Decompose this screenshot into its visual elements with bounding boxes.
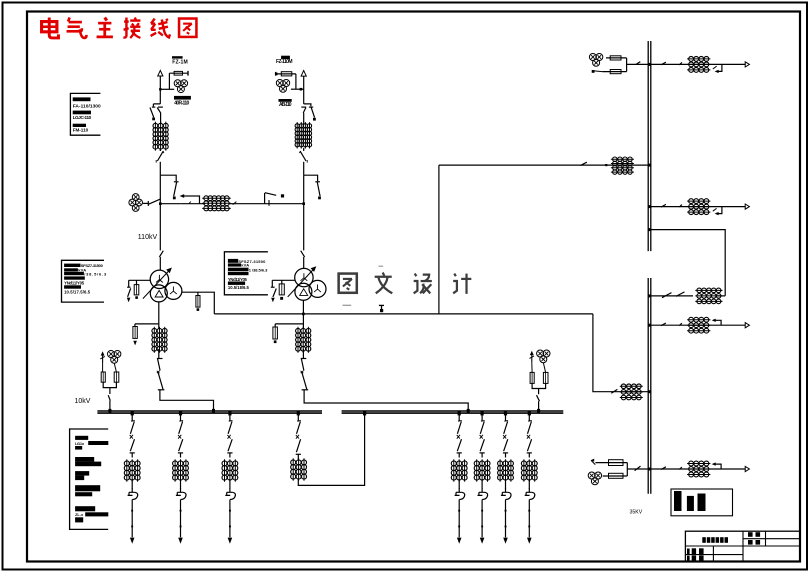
disconnector QS9 — [301, 251, 305, 257]
svg-text:YNd11/Y05: YNd11/Y05 — [228, 277, 248, 282]
svg-text:1 /38.5/6.3: 1 /38.5/6.3 — [249, 267, 268, 272]
legend bar 1 — [674, 491, 682, 511]
disconnector QS8a — [480, 421, 484, 434]
wire — [505, 479, 507, 489]
fuse F7 — [134, 280, 139, 295]
fuse cutout — [501, 488, 511, 499]
node line arrow — [745, 323, 749, 328]
wire 10kV feeder 4 — [458, 413, 460, 421]
disconnector QS11 — [611, 389, 617, 393]
wire 35kV feeder line c — [651, 324, 746, 326]
label bar — [73, 111, 91, 115]
net mark — [379, 305, 384, 312]
node line arrow — [745, 204, 749, 209]
wire — [103, 382, 116, 387]
disconnector QS6b — [227, 439, 232, 453]
wire — [303, 175, 305, 204]
node tick — [505, 526, 507, 528]
callout box feeder legend — [70, 429, 109, 529]
node tick — [180, 510, 182, 512]
title block cell blob — [748, 540, 760, 545]
CT TA3 — [295, 122, 312, 148]
label bar — [75, 462, 101, 467]
node arrester arrow — [100, 351, 105, 363]
breaker QF10 — [527, 435, 530, 439]
busbar W2 (10kV section II) — [342, 411, 564, 413]
wire 10kV feeder 3 — [229, 413, 231, 421]
svg-text:LGJC-110: LGJC-110 — [73, 115, 92, 120]
junction — [302, 313, 305, 316]
fuse cutout — [525, 488, 535, 499]
fuse cutout — [478, 488, 488, 499]
svg-text:FA-110/1300: FA-110/1300 — [73, 103, 101, 109]
disconnector QS4b — [130, 439, 135, 453]
node tick — [505, 510, 507, 512]
title block dividers — [685, 531, 799, 561]
breaker QF9 — [503, 435, 506, 439]
disconnector QS1b — [157, 107, 163, 113]
busbar W3 section II — [648, 278, 651, 494]
node QS1a open dot — [152, 118, 155, 121]
breaker hook — [713, 64, 722, 73]
breaker QF5 — [178, 435, 181, 439]
disconnector QS8b — [480, 439, 485, 453]
wire — [158, 349, 160, 358]
label bar — [75, 506, 95, 511]
junction tick — [179, 411, 182, 415]
disconnector QS16a — [661, 323, 666, 326]
node dot — [592, 70, 595, 73]
CT TA24 — [124, 459, 140, 481]
fuse F4 — [275, 72, 296, 76]
arrester F9 — [133, 327, 137, 339]
breaker QF8 — [480, 435, 483, 439]
disconnector QS16b — [679, 323, 682, 326]
wire — [481, 479, 483, 489]
wire T2 to bus — [304, 390, 468, 411]
node QS8 open dot — [318, 197, 321, 200]
breaker QF1 racking arrow — [180, 194, 200, 204]
wire — [159, 204, 161, 251]
wire T1 35kV lead — [182, 292, 215, 314]
disconnector QS6a — [309, 107, 315, 118]
label bar — [75, 517, 83, 522]
disconnector QS19 — [108, 395, 110, 400]
wire 10kV feeder 6 — [505, 413, 507, 421]
svg-text:110kV: 110kV — [138, 234, 158, 241]
wire — [265, 203, 304, 205]
node load arrow — [228, 538, 233, 544]
callout box T1 nameplate — [62, 260, 105, 302]
svg-text:/38.5/6.3: /38.5/6.3 — [84, 271, 107, 276]
junction — [300, 88, 303, 91]
arrester F12 branch — [275, 324, 303, 327]
wire 10kV feeder 1 — [131, 413, 133, 421]
wire — [627, 63, 649, 65]
arrester F12 — [273, 327, 278, 339]
fuse F14 — [602, 70, 626, 74]
breaker hook — [712, 319, 721, 326]
disconnector QS12 — [636, 62, 641, 65]
node load arrow — [480, 538, 485, 544]
breaker QF7 — [457, 435, 460, 439]
fuse F17 — [101, 372, 105, 382]
disconnector QS18b — [679, 467, 682, 470]
wire — [505, 453, 507, 458]
wire — [180, 453, 182, 458]
fuse F20 — [543, 372, 548, 383]
node load arrow — [527, 538, 532, 544]
wire — [481, 453, 483, 458]
node load arrow — [130, 538, 135, 544]
disconnector QS15 — [662, 292, 685, 298]
label bar — [75, 471, 89, 476]
wire branch riser — [168, 73, 170, 89]
node line arrow — [745, 466, 749, 471]
PT cluster TV2 — [588, 472, 601, 485]
ground arrow — [127, 298, 131, 303]
disconnector QS13b — [679, 62, 682, 65]
wire — [528, 479, 530, 489]
junction — [159, 202, 162, 205]
disconnector QS13a — [661, 62, 666, 65]
wire line2 drop — [303, 76, 305, 104]
wire — [159, 175, 161, 204]
label bar — [75, 485, 100, 491]
fuse cutout — [455, 488, 465, 499]
node tick — [131, 526, 133, 528]
wire — [626, 58, 628, 72]
svg-text:10.5/17.5/6.5: 10.5/17.5/6.5 — [64, 290, 91, 295]
disconnector QS2 — [156, 151, 164, 163]
fuse F1 — [169, 71, 188, 76]
disconnector QS22 — [296, 439, 301, 454]
node incoming line 1 terminal arrow — [158, 70, 163, 76]
CT TA25 — [173, 459, 189, 481]
svg-text:YNd11/Y05: YNd11/Y05 — [64, 280, 85, 285]
CT TA6 — [611, 157, 634, 174]
wire — [143, 202, 148, 204]
wire — [229, 479, 231, 489]
wire 35kV feeder line d — [651, 468, 746, 470]
junction — [648, 63, 651, 66]
disconnector QS4 — [159, 251, 163, 257]
svg-text:FM-110: FM-110 — [73, 128, 89, 133]
junction tick — [467, 409, 470, 413]
CT TA7 — [620, 384, 643, 400]
disconnector QS6a — [228, 421, 232, 434]
label FZ-110M bar — [281, 56, 290, 59]
node QS3 open dot — [173, 197, 176, 200]
disconnector QS5b — [178, 439, 183, 453]
node open dot — [281, 194, 284, 197]
PT cluster TV3 — [108, 351, 121, 364]
disconnector QS9b — [503, 439, 508, 453]
node arrow tick — [591, 459, 596, 465]
node tick — [528, 526, 530, 528]
fuse F15 — [595, 460, 627, 466]
svg-text:AB-110: AB-110 — [279, 102, 292, 108]
wire line1 drop — [159, 76, 161, 104]
CT TA15 — [695, 288, 722, 304]
breaker QF1 hook — [265, 193, 277, 206]
wire — [180, 500, 182, 538]
disconnector QS1a — [150, 107, 155, 117]
svg-text:FZ-1M: FZ-1M — [172, 59, 188, 65]
arrester cluster F5 (3x) — [276, 80, 289, 93]
node dot — [280, 297, 283, 300]
wire — [538, 389, 540, 395]
wire jog — [153, 104, 160, 107]
disconnector QS7b — [457, 439, 462, 453]
disconnector QS17 — [635, 466, 641, 471]
label bar — [64, 285, 81, 288]
node dot — [274, 340, 277, 343]
svg-text:35KV: 35KV — [630, 509, 643, 515]
wire — [528, 453, 530, 458]
wire — [303, 148, 305, 151]
watermark 图文设计 — [339, 266, 472, 305]
wire lower 35kV feed — [593, 314, 649, 392]
wire — [158, 302, 160, 329]
junction tick — [131, 411, 134, 415]
wire T2 left branch — [272, 280, 295, 287]
svg-text:ZL-x: ZL-x — [75, 513, 84, 517]
ground arrow — [133, 341, 137, 346]
wire riser to upper 35kV feed — [438, 165, 440, 314]
wire bus tie drop — [297, 413, 299, 421]
title block frame — [685, 531, 799, 561]
junction tick — [458, 411, 461, 415]
wire — [303, 162, 305, 175]
label bar — [75, 476, 84, 481]
wire 10kV feeder 5 — [481, 413, 483, 421]
wire — [626, 463, 628, 476]
wire — [131, 500, 133, 538]
breaker QF10 — [296, 435, 299, 439]
fuse cutout — [225, 488, 235, 499]
wire — [505, 500, 507, 538]
wire — [302, 300, 304, 329]
node tick — [458, 510, 460, 512]
node T-bar — [147, 201, 149, 206]
node tick — [528, 510, 530, 512]
wire — [180, 203, 205, 205]
fuse cutout — [128, 488, 138, 499]
label bar — [73, 124, 86, 127]
label 40R-110 bar — [174, 96, 191, 100]
wire — [303, 257, 305, 269]
label row — [75, 441, 108, 446]
CT TA5 — [296, 327, 311, 353]
wire — [627, 468, 648, 470]
disconnector QS7a — [457, 421, 461, 434]
label bar — [228, 272, 249, 275]
junction — [648, 205, 651, 208]
wire jog — [304, 104, 311, 106]
label bar — [75, 457, 94, 462]
junction tick — [189, 202, 191, 204]
wire — [109, 401, 111, 411]
busbar W1 (10kV section I) — [97, 411, 322, 413]
arrester cluster F2 (3x) — [174, 80, 187, 93]
junction tick — [108, 409, 111, 413]
breaker QF6 — [227, 435, 230, 439]
junction tick — [504, 411, 507, 415]
CT TA30 — [291, 458, 307, 480]
fuse F16 — [603, 473, 628, 478]
wire bypass jog — [160, 175, 176, 181]
wire — [159, 162, 161, 175]
label bar — [228, 263, 241, 266]
wire — [594, 70, 602, 73]
wire T1 to bus — [160, 390, 214, 411]
breaker QF3 — [301, 359, 309, 390]
disconnector QS18a — [661, 467, 666, 470]
wire — [458, 479, 460, 489]
node tick — [481, 526, 483, 528]
label row — [75, 512, 108, 517]
CT TA30 — [521, 459, 537, 481]
junction tick — [537, 409, 540, 413]
wire PT link — [291, 88, 304, 90]
wire — [229, 203, 264, 205]
CT TA1 — [153, 122, 168, 151]
fuse cutout — [176, 488, 186, 499]
CT TA28 — [687, 461, 710, 477]
wire — [297, 454, 299, 459]
wire — [481, 500, 483, 538]
wire — [159, 257, 161, 270]
breaker hook — [713, 207, 722, 216]
junction — [648, 228, 651, 231]
title block name blob — [702, 537, 728, 543]
wire 35kV feeder line b — [651, 206, 746, 208]
wire 35kV trunk — [214, 313, 593, 315]
node arrester arrow — [530, 351, 535, 363]
arrester F10 — [271, 287, 277, 297]
junction tick — [481, 411, 484, 415]
legend bar 2 — [687, 496, 694, 511]
arrester cluster F3 (PT) — [129, 194, 143, 212]
junction tick — [528, 411, 531, 415]
wire section tie upper — [651, 230, 725, 296]
node load arrow — [503, 538, 508, 544]
label bar — [75, 492, 92, 496]
disconnector QS7 — [300, 151, 308, 163]
svg-text:10kV: 10kV — [75, 398, 91, 405]
node tick — [605, 164, 607, 166]
disconnector QS21 — [297, 421, 301, 434]
wire — [531, 363, 533, 373]
wire — [543, 363, 545, 373]
node tick — [131, 510, 133, 512]
wire — [159, 149, 161, 151]
disconnector QS5a — [179, 421, 183, 434]
busbar W3 section I — [648, 41, 651, 251]
junction — [302, 202, 305, 205]
disconnector tick — [233, 202, 237, 205]
node tick — [458, 526, 460, 528]
title block cell blob — [687, 555, 704, 561]
junction tick — [228, 411, 231, 415]
wire bypass jog — [304, 175, 318, 181]
wire — [458, 453, 460, 458]
breaker hook — [712, 462, 721, 469]
disconnector QS5 blade — [149, 199, 161, 204]
wire — [180, 479, 182, 489]
wire — [458, 500, 460, 538]
ground arrow — [271, 298, 275, 303]
wire — [229, 453, 231, 458]
wire 10kV feeder 2 — [180, 413, 182, 421]
wire tie segment — [160, 203, 180, 205]
svg-text:LGJ-x: LGJ-x — [75, 442, 85, 446]
disconnector QS9a — [504, 421, 508, 434]
node tick — [481, 510, 483, 512]
transformer T2 — [288, 266, 326, 300]
node load arrow — [457, 538, 462, 544]
wire — [532, 383, 546, 388]
wire — [528, 500, 530, 538]
disconnector QS14b — [679, 205, 682, 208]
label bar — [64, 276, 85, 279]
wire bus tie link — [298, 413, 364, 485]
wire — [102, 363, 104, 372]
svg-text:10.5/18/6.5: 10.5/18/6.5 — [228, 285, 250, 290]
legend box — [671, 489, 733, 516]
node load arrow — [178, 538, 183, 544]
wire upper 35kV feed — [439, 164, 649, 166]
breaker QF4 — [130, 435, 133, 439]
CT TA28 — [474, 459, 490, 481]
junction — [159, 88, 161, 90]
wire — [131, 453, 133, 458]
wire — [303, 204, 305, 251]
arrester F9 branch — [135, 324, 159, 327]
label bar — [228, 268, 249, 271]
wire T1 left branch — [129, 280, 151, 287]
callout box line1 parameters — [70, 93, 100, 135]
CT TA26 — [222, 459, 238, 481]
PT cluster TV1 — [589, 54, 602, 67]
arrester F6 — [127, 287, 131, 297]
label bar — [64, 264, 80, 267]
fuse F19 — [530, 372, 534, 383]
wire section tie lower — [651, 295, 693, 297]
wire — [114, 363, 116, 372]
CT TA27 — [451, 459, 467, 481]
wire — [302, 349, 304, 358]
wire branch riser — [295, 74, 297, 89]
disconnector QS3 — [174, 182, 179, 196]
wire — [109, 388, 111, 394]
transformer T1 — [143, 268, 182, 302]
node incoming line 2 terminal arrow — [301, 71, 306, 77]
wire 10kV feeder 7 — [528, 413, 530, 421]
title text 电气主接线图 (red) — [42, 18, 197, 38]
wire 35kV feeder line a — [651, 63, 746, 65]
callout box T2 nameplate — [224, 252, 268, 295]
label FZ-1M bar — [172, 56, 183, 58]
svg-text:40R-110: 40R-110 — [174, 101, 189, 107]
junction — [648, 294, 651, 297]
CT TA24 — [687, 199, 710, 215]
junction — [648, 468, 651, 471]
legend bar 3 — [698, 494, 706, 512]
junction — [648, 390, 651, 393]
disconnector QS10a — [528, 421, 532, 434]
